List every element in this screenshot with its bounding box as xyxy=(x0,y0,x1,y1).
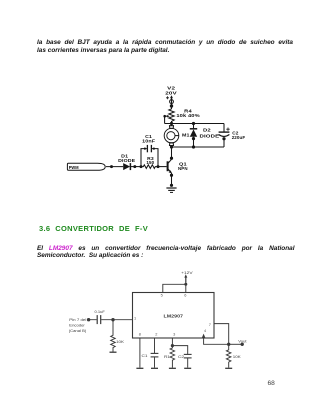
top paragraph xyxy=(37,39,293,54)
resistor 10K (output) xyxy=(226,344,231,367)
node dot out junction xyxy=(227,343,230,346)
ground under Q1 xyxy=(166,188,176,192)
wire pin 7 out xyxy=(214,324,229,345)
resistor R1 xyxy=(170,346,175,368)
V2 power source symbol xyxy=(166,95,173,103)
node dot C2 bottom xyxy=(222,137,225,140)
node dot after PWM xyxy=(110,165,113,168)
svg-text:20V: 20V xyxy=(165,91,177,96)
svg-text:6: 6 xyxy=(184,293,186,298)
svg-text:10nF: 10nF xyxy=(142,139,155,144)
svg-text:7: 7 xyxy=(209,322,211,327)
svg-text:10k 40%: 10k 40% xyxy=(176,113,199,118)
svg-text:M1: M1 xyxy=(182,133,190,138)
node dot collector xyxy=(170,157,173,160)
node dot base-left xyxy=(157,165,160,168)
svg-text:LM2907: LM2907 xyxy=(164,313,184,319)
wire pin 3 down xyxy=(171,338,173,346)
wire pin 4 down xyxy=(204,338,229,344)
node dot above ground xyxy=(170,184,173,187)
node dot supply xyxy=(184,283,187,286)
svg-text:220uF: 220uF xyxy=(232,135,246,140)
labels circuit 2 xyxy=(69,270,248,359)
resistor 10K (input) xyxy=(111,320,116,352)
svg-text:10K: 10K xyxy=(116,339,124,344)
page number xyxy=(268,380,275,387)
ground input 10K xyxy=(110,351,117,353)
input terminal dot (encoder) xyxy=(87,318,90,321)
node dot R4/motor xyxy=(170,122,173,125)
svg-text:3: 3 xyxy=(173,331,175,336)
wire bottom bus xyxy=(172,146,225,148)
svg-text:8: 8 xyxy=(139,331,141,336)
svg-text:D2: D2 xyxy=(203,128,211,133)
wire pin5 riser xyxy=(163,284,186,292)
section heading 3.6 xyxy=(39,224,179,233)
ground output 10K xyxy=(225,367,232,369)
node dot R3 left xyxy=(140,165,143,168)
svg-text:DIODE: DIODE xyxy=(200,133,220,138)
wire pin 8 down xyxy=(139,338,141,368)
svg-text:Pin 7 del: Pin 7 del xyxy=(69,317,86,322)
svg-text:2: 2 xyxy=(155,331,157,336)
input tag PWM xyxy=(67,163,105,170)
node dot D2 top xyxy=(192,122,195,125)
wire to Vout xyxy=(229,343,243,345)
paragraph LM2907 xyxy=(37,245,295,260)
svg-text:(Canal B): (Canal B) xyxy=(69,328,87,333)
pin 4 input arrow xyxy=(202,334,205,338)
svg-text:+12V: +12V xyxy=(181,270,193,275)
capacitor C1 10nF branch xyxy=(141,145,158,167)
ground R1 xyxy=(169,367,176,369)
diode D2 xyxy=(190,124,197,148)
wire +12V down to pin 6 xyxy=(185,276,187,293)
labels circuit 1 xyxy=(69,86,246,172)
ground C1 xyxy=(151,367,158,369)
svg-text:Encoder: Encoder xyxy=(69,322,85,327)
node dot D2 bottom bus xyxy=(192,145,195,148)
node dot pin 3 xyxy=(171,344,174,347)
IC U1 LM2907 body xyxy=(133,293,215,339)
node dot D2 bottom xyxy=(192,137,195,140)
+12V supply arrow xyxy=(184,274,187,282)
wire pin 2 down xyxy=(154,338,156,353)
motor M1 xyxy=(164,124,179,148)
svg-text:4: 4 xyxy=(204,328,207,333)
svg-text:Vout: Vout xyxy=(238,338,247,343)
Vout terminal dot xyxy=(241,343,244,346)
capacitor C2 220uF xyxy=(219,124,230,148)
svg-text:150: 150 xyxy=(146,160,154,165)
svg-text:R1: R1 xyxy=(164,354,171,359)
wire supply to R4 xyxy=(171,104,173,109)
wire bus to Q1 collector xyxy=(171,147,173,159)
capacitor C2 branch xyxy=(172,346,191,368)
wire top bus xyxy=(165,123,225,125)
resistor R4 (pot 10k 40%) xyxy=(163,108,174,124)
capacitor C1 xyxy=(151,353,159,367)
svg-text:5: 5 xyxy=(161,293,163,298)
ground pin 8 xyxy=(136,367,143,369)
svg-text:C1: C1 xyxy=(142,353,149,358)
svg-text:NPN: NPN xyxy=(178,166,188,171)
wire pin 1 input xyxy=(90,319,133,321)
node dot motor bottom xyxy=(170,145,173,148)
node: supply junction dot xyxy=(170,104,173,107)
svg-text:C2: C2 xyxy=(178,354,185,359)
resistor R3 150 xyxy=(141,165,158,169)
transistor Q1 NPN xyxy=(168,159,172,185)
node dot input junction xyxy=(111,318,114,321)
svg-text:DIODE: DIODE xyxy=(118,158,135,163)
svg-text:PWM: PWM xyxy=(69,165,79,170)
diode D1 xyxy=(106,163,141,170)
capacitor 0.1uF xyxy=(97,315,101,324)
node dot emitter xyxy=(170,174,173,177)
node dot after D1 xyxy=(133,165,136,168)
svg-text:1: 1 xyxy=(134,316,136,321)
wire base xyxy=(158,166,167,168)
svg-text:0.1uF: 0.1uF xyxy=(95,309,106,314)
ground C2 xyxy=(184,367,191,369)
svg-text:10K: 10K xyxy=(233,354,241,359)
